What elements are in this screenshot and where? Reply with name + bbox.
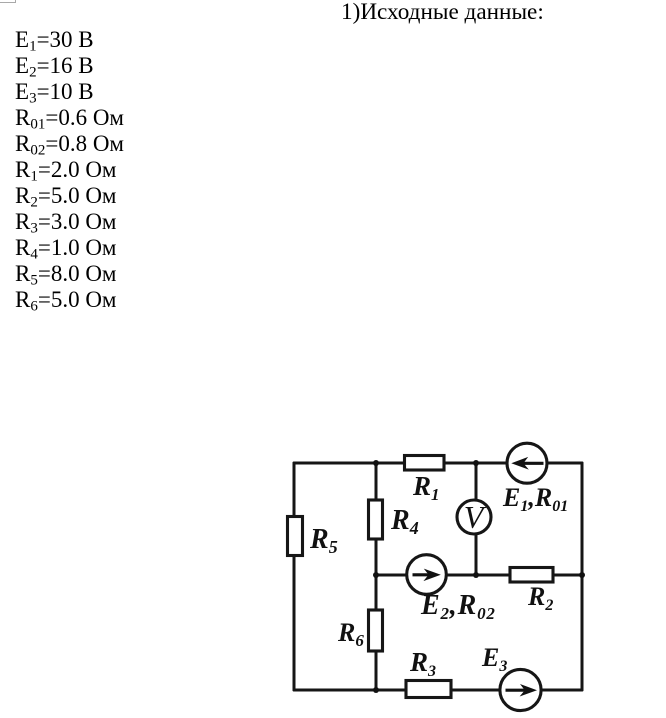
voltmeter V circle [457,500,491,534]
resistor R2 [510,568,553,583]
source E1,R01 circle [507,443,547,483]
junction node top-2 [473,460,479,466]
source E3 circle [500,669,541,710]
junction node top-1 [373,460,379,466]
arrow in E2 (points right) [413,569,441,582]
resistor R3 [406,681,451,698]
resistor R5 [288,517,303,556]
resistor R1 [405,456,445,471]
wire bottom: bottom branch with R3 and E3 [294,689,582,692]
svg-text:E3: E3 [481,643,507,675]
svg-text:V: V [464,499,487,535]
arrow in E1 (points left) [511,457,543,470]
corner artifact of text box [0,0,16,3]
junction node bottom [373,687,379,693]
source E2,R02 circle [407,555,447,595]
wire middle horizontal: node B row with E2 and R2 [376,574,582,577]
svg-text:R6: R6 [337,618,364,650]
wire right: right branch [581,463,584,690]
junction node mid-right [579,572,585,578]
arrow in E3 (points right) [506,684,538,697]
wire middle vertical: branch with R4 and R6 [375,463,378,690]
wire voltmeter branch [475,463,478,575]
svg-text:R5: R5 [309,524,338,557]
wire left: left branch with R5 [293,463,296,690]
wire top: from top-left corner to top-right corner [294,462,582,465]
resistor R6 [369,610,383,651]
resistor R4 [369,500,383,539]
junction node mid-2 [473,572,479,578]
svg-text:R3: R3 [409,647,436,680]
svg-text:E2,R02: E2,R02 [420,590,496,623]
svg-text:R2: R2 [527,582,553,614]
svg-text:R1: R1 [412,471,440,504]
svg-text:E1,R01: E1,R01 [502,483,568,515]
junction node mid-1 [373,572,379,578]
svg-text:R4: R4 [390,505,419,538]
